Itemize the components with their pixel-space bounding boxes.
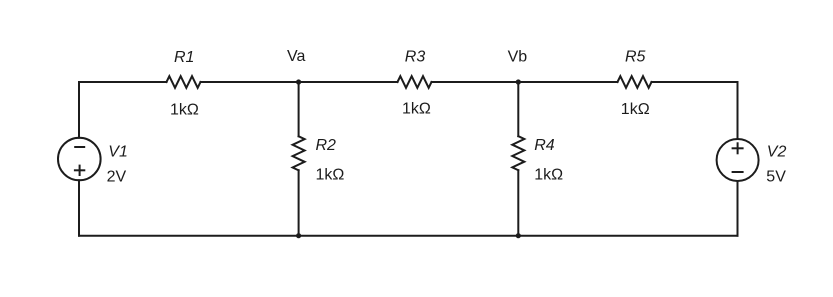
resistor R1 [167,76,201,88]
svg-text:R5: R5 [625,49,646,66]
svg-text:1kΩ: 1kΩ [170,102,199,119]
svg-text:1kΩ: 1kΩ [534,167,563,184]
svg-text:2V: 2V [107,168,127,185]
wire [298,170,300,235]
wire [79,235,738,237]
svg-text:5V: 5V [766,168,786,185]
node Vb [516,79,521,84]
svg-text:Vb: Vb [508,49,528,66]
svg-text:R2: R2 [316,137,337,154]
svg-text:1kΩ: 1kΩ [402,101,431,118]
wire [517,170,519,236]
node Va [296,79,301,84]
wire [79,82,167,138]
svg-text:V2: V2 [767,143,787,160]
svg-text:1kΩ: 1kΩ [316,167,345,184]
voltage source V2 [717,139,759,181]
resistor R2 [293,136,305,170]
resistor R5 [618,76,652,88]
voltage source V1 [58,138,101,181]
wire [737,181,739,236]
svg-text:1kΩ: 1kΩ [621,101,650,118]
svg-text:Va: Va [287,48,305,65]
resistor R4 [512,136,524,170]
wire [201,81,398,83]
svg-text:R4: R4 [534,137,555,154]
wire [298,82,300,136]
wire [78,180,80,235]
wire [432,81,618,83]
resistor R3 [398,76,432,88]
node bottom-b junction [516,233,521,238]
svg-text:V1: V1 [108,143,128,160]
svg-text:R1: R1 [174,49,194,66]
wire [517,82,519,136]
svg-text:R3: R3 [405,49,426,66]
node bottom-a junction [296,233,301,238]
wire [652,82,738,139]
